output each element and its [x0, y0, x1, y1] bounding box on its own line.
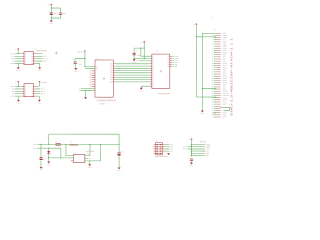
svg-text:D1: D1	[168, 66, 170, 68]
svg-text:DGND: DGND	[88, 167, 92, 169]
svg-text:D1: D1	[168, 62, 170, 64]
svg-text:BOOT: BOOT	[223, 104, 227, 106]
svg-text:PB1: PB1	[110, 70, 113, 72]
svg-text:VB: VB	[31, 58, 33, 60]
svg-text:PB1: PB1	[110, 72, 113, 74]
svg-text:D1: D1	[168, 58, 170, 60]
svg-text:SCK: SCK	[223, 56, 226, 58]
svg-text:D1: D1	[168, 64, 170, 66]
svg-text:PB1: PB1	[110, 77, 113, 79]
svg-text:PWM1: PWM1	[223, 78, 228, 80]
svg-text:SDA1: SDA1	[223, 84, 227, 86]
svg-text:DGND: DGND	[117, 170, 121, 172]
svg-text:DGND: DGND	[189, 165, 193, 167]
svg-text:A1: A1	[152, 79, 154, 81]
svg-text:DGND: DGND	[49, 23, 53, 25]
svg-text:PB1: PB1	[110, 75, 113, 77]
svg-text:VD: VD	[96, 66, 98, 68]
svg-text:74HC4051PW: 74HC4051PW	[158, 92, 170, 95]
svg-text:A1: A1	[152, 75, 154, 77]
svg-text:DAT1: DAT1	[223, 114, 227, 116]
svg-text:VA: VA	[25, 56, 27, 58]
svg-text:RXD0: RXD0	[223, 44, 227, 46]
svg-text:A1: A1	[152, 58, 154, 60]
svg-text:DGND: DGND	[39, 170, 43, 172]
svg-text:GND: GND	[223, 89, 226, 91]
svg-text:A1: A1	[152, 60, 154, 62]
svg-text:DGND: DGND	[16, 102, 20, 104]
svg-text:VA: VA	[25, 63, 27, 65]
svg-text:100n: 100n	[54, 13, 57, 15]
svg-text:D1: D1	[168, 60, 170, 62]
svg-text:STM32F103CBT6: STM32F103CBT6	[97, 99, 116, 102]
svg-text:A1: A1	[152, 81, 154, 83]
svg-text:OU: OU	[83, 155, 85, 157]
svg-text:VA: VA	[25, 61, 27, 63]
svg-text:A1: A1	[152, 63, 154, 65]
svg-text:ADC0: ADC0	[223, 65, 227, 67]
svg-text:OU: OU	[83, 160, 85, 162]
svg-text:MOSI: MOSI	[223, 52, 227, 54]
svg-text:PWM0: PWM0	[223, 76, 228, 78]
svg-text:DGND: DGND	[38, 70, 42, 72]
svg-text:GND: GND	[223, 117, 226, 119]
svg-text:VBAT: VBAT	[223, 74, 227, 76]
svg-text:GPIO2: GPIO2	[223, 35, 228, 37]
svg-text:ADC2: ADC2	[223, 69, 227, 71]
svg-text:VA: VA	[24, 96, 26, 98]
svg-text:VB: VB	[31, 96, 33, 98]
svg-text:PB1: PB1	[110, 68, 113, 70]
svg-text:A1: A1	[152, 86, 154, 88]
svg-text:CS0: CS0	[223, 59, 226, 61]
svg-text:VIN+: VIN+	[33, 143, 37, 146]
svg-text:VB: VB	[31, 91, 33, 93]
svg-text:VA: VA	[24, 93, 26, 95]
svg-text:VB: VB	[31, 63, 33, 65]
svg-text:VA: VA	[25, 86, 27, 88]
svg-text:ADC1: ADC1	[223, 67, 227, 69]
svg-text:A1: A1	[152, 56, 154, 58]
svg-text:GPIO9: GPIO9	[223, 91, 228, 93]
svg-text:A1: A1	[152, 70, 154, 72]
svg-text:VB: VB	[31, 93, 33, 95]
svg-text:VA: VA	[25, 53, 27, 55]
svg-text:VA: VA	[24, 91, 26, 93]
svg-text:A1: A1	[152, 68, 154, 70]
svg-text:USB_DP: USB_DP	[223, 93, 229, 95]
svg-text:VCC: VCC	[223, 39, 226, 41]
svg-text:VB: VB	[31, 53, 33, 55]
svg-text:100n: 100n	[63, 13, 66, 15]
svg-text:VA: VA	[25, 58, 27, 60]
svg-text:VD: VD	[96, 68, 98, 70]
svg-text:VCC5: VCC5	[223, 97, 227, 99]
svg-text:A1: A1	[152, 77, 154, 79]
svg-text:PB1: PB1	[110, 63, 113, 65]
svg-text:RST: RST	[223, 102, 226, 104]
svg-text:DGND: DGND	[139, 90, 143, 92]
svg-text:DGND: DGND	[37, 102, 41, 104]
svg-text:USB_DM: USB_DM	[223, 95, 230, 97]
svg-text:DGND: DGND	[47, 164, 51, 166]
svg-text:GPIO5: GPIO5	[223, 48, 228, 50]
svg-text:SCL1: SCL1	[223, 86, 227, 88]
svg-text:VA: VA	[24, 88, 26, 90]
svg-text:GND: GND	[223, 71, 226, 73]
svg-text:VB: VB	[31, 56, 33, 58]
svg-text:A1: A1	[152, 72, 154, 74]
svg-text:GND: GND	[223, 50, 226, 52]
svg-text:D1: D1	[168, 56, 170, 58]
svg-text:PB1: PB1	[110, 81, 113, 83]
svg-text:SMD-1.5-48DZ29P-ATX04-1 1 1: SMD-1.5-48DZ29P-ATX04-1 1 1	[230, 37, 233, 116]
svg-text:GPIO10: GPIO10	[223, 99, 228, 101]
svg-text:A1: A1	[152, 66, 154, 68]
svg-text:OU: OU	[83, 158, 85, 160]
svg-text:600R@1A: 600R@1A	[69, 144, 78, 147]
svg-text:GND: GND	[223, 33, 226, 35]
svg-text:GPIO8: GPIO8	[223, 82, 228, 84]
svg-text:CS1: CS1	[223, 61, 226, 63]
svg-text:VIN-: VIN-	[33, 147, 37, 150]
svg-text:GPIO7: GPIO7	[223, 80, 228, 82]
svg-text:DGND: DGND	[74, 71, 78, 73]
svg-text:GPIO3: GPIO3	[223, 37, 228, 39]
svg-text:VB: VB	[31, 86, 33, 88]
svg-text:PB1: PB1	[110, 79, 113, 81]
svg-text:TXD0: TXD0	[223, 41, 227, 43]
svg-text:VB: VB	[31, 61, 33, 63]
svg-text:PB1: PB1	[110, 66, 113, 68]
svg-text:DGND: DGND	[16, 70, 20, 72]
svg-text:DGND: DGND	[200, 113, 204, 115]
svg-text:GPIO4: GPIO4	[223, 46, 228, 48]
svg-text:VB: VB	[31, 88, 33, 90]
svg-text:DAT0: DAT0	[223, 112, 227, 114]
svg-text:A1: A1	[152, 84, 154, 86]
svg-text:GPIO6: GPIO6	[223, 63, 228, 65]
